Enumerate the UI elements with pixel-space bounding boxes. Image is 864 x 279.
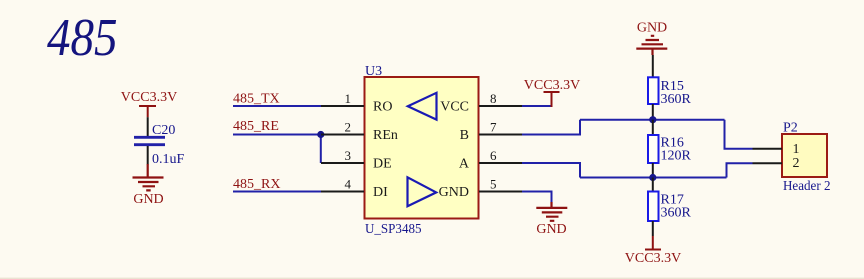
bottom edge line — [0, 278, 864, 279]
pin 1 RO — [321, 91, 392, 115]
svg-text:485: 485 — [47, 9, 118, 67]
svg-text:360R: 360R — [661, 206, 692, 221]
svg-text:5: 5 — [490, 177, 497, 192]
op-amp U3 body — [365, 77, 479, 219]
pin 2 REn — [321, 120, 398, 144]
wire node A to P2 pin2 — [727, 163, 753, 177]
svg-text:DE: DE — [373, 157, 392, 172]
svg-text:RO: RO — [373, 100, 392, 115]
wire pin8 to VCC — [522, 105, 552, 107]
svg-text:6: 6 — [490, 148, 497, 163]
svg-text:GND: GND — [133, 192, 163, 207]
pin 8 VCC — [440, 91, 522, 115]
wire C20 top pin — [147, 117, 149, 136]
power VCC3.3V (bottom) — [625, 236, 681, 266]
ground GND (pin 5) — [536, 202, 567, 237]
wire node B horizontal — [580, 119, 725, 121]
svg-text:485_TX: 485_TX — [233, 92, 280, 107]
wire R15 top pin — [652, 55, 654, 77]
wire R16 top pin — [652, 120, 654, 135]
capacitor C20 — [134, 123, 185, 167]
svg-text:VCC3.3V: VCC3.3V — [121, 90, 177, 105]
svg-text:7: 7 — [490, 120, 497, 135]
svg-text:VCC3.3V: VCC3.3V — [524, 78, 580, 93]
svg-text:GND: GND — [439, 185, 469, 200]
connector P2 body — [782, 134, 827, 177]
svg-text:GND: GND — [637, 21, 667, 36]
svg-text:GND: GND — [536, 222, 566, 237]
svg-text:C20: C20 — [152, 123, 175, 138]
svg-text:U_SP3485: U_SP3485 — [365, 222, 422, 237]
junction node B — [649, 116, 656, 123]
resistor R15 — [648, 77, 692, 107]
wire 485_RE — [233, 134, 321, 136]
pin 5 GND — [439, 177, 522, 201]
wire 485_RX — [233, 191, 321, 193]
wire C20 bottom pin — [147, 146, 149, 165]
svg-text:8: 8 — [490, 91, 497, 106]
svg-text:485_RX: 485_RX — [233, 177, 280, 192]
junction node A — [649, 174, 656, 181]
wire RE to DE vertical — [320, 135, 322, 164]
wire R17 bottom pin — [652, 221, 654, 236]
wire node A horizontal — [580, 177, 727, 179]
svg-text:4: 4 — [345, 177, 352, 192]
svg-text:Header 2: Header 2 — [783, 179, 831, 194]
power VCC3.3V (left) — [121, 90, 177, 117]
svg-text:VCC3.3V: VCC3.3V — [625, 251, 681, 266]
driver triangle (in U3) — [408, 177, 437, 206]
ground GND (top right) — [636, 21, 667, 56]
junction RE/DE — [317, 131, 324, 138]
resistor R16 — [648, 135, 692, 164]
wire R17 top pin — [652, 178, 654, 192]
svg-text:1: 1 — [345, 91, 352, 106]
svg-text:B: B — [460, 128, 469, 143]
pin 3 DE — [321, 148, 392, 172]
pin 4 DI — [321, 177, 388, 201]
receiver triangle (in U3) — [408, 93, 437, 120]
pin 6 A — [459, 148, 522, 172]
wire pin7 to node B — [522, 120, 580, 135]
svg-text:DI: DI — [373, 185, 388, 200]
svg-text:360R: 360R — [661, 92, 692, 107]
svg-text:REn: REn — [373, 128, 398, 143]
wire R15 bottom pin — [652, 104, 654, 120]
svg-text:1: 1 — [793, 142, 800, 157]
pin 2 (P2) — [753, 156, 800, 171]
svg-text:2: 2 — [345, 120, 352, 135]
svg-text:A: A — [459, 157, 470, 172]
wire R16 bottom pin — [652, 163, 654, 178]
pin 1 (P2) — [753, 142, 800, 157]
svg-text:120R: 120R — [661, 149, 692, 164]
svg-text:0.1uF: 0.1uF — [152, 152, 185, 167]
svg-text:485_RE: 485_RE — [233, 119, 279, 134]
power VCC3.3V (pin 8) — [524, 78, 580, 107]
svg-text:U3: U3 — [365, 64, 382, 79]
svg-text:VCC: VCC — [440, 100, 469, 115]
resistor R17 — [648, 192, 692, 222]
wire pin5 to GND — [522, 192, 552, 204]
wire node B to P2 pin1 — [725, 120, 753, 149]
ground GND (left) — [133, 164, 164, 207]
svg-text:P2: P2 — [783, 121, 798, 136]
svg-text:3: 3 — [345, 148, 352, 163]
wire pin6 to node A — [522, 163, 580, 178]
pin 7 B — [460, 120, 522, 144]
svg-text:2: 2 — [793, 156, 800, 171]
wire 485_TX — [233, 105, 321, 107]
